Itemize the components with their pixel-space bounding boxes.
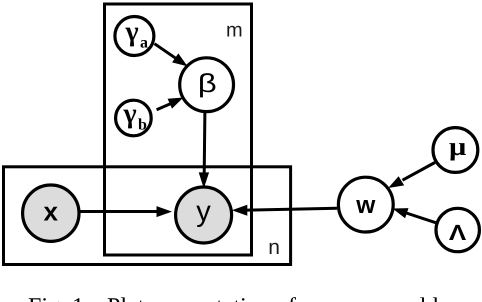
wire w to y bbox=[232, 205, 337, 216]
node mu bbox=[433, 128, 478, 173]
svg-text:b: b bbox=[138, 117, 147, 134]
plate n bbox=[4, 167, 291, 265]
svg-text:n: n bbox=[268, 236, 280, 259]
svg-text:m: m bbox=[226, 19, 243, 41]
node gamma_b bbox=[116, 99, 152, 136]
node y bbox=[176, 187, 232, 243]
node gamma_a bbox=[115, 17, 154, 56]
svg-text:our: our bbox=[322, 294, 354, 302]
wire gamma_b to beta bbox=[157, 98, 184, 110]
wire x to y bbox=[79, 206, 172, 217]
svg-text:γ: γ bbox=[123, 99, 137, 130]
svg-text:a: a bbox=[140, 35, 148, 52]
svg-text:Fig.: Fig. bbox=[28, 294, 66, 302]
svg-text:y: y bbox=[196, 196, 211, 228]
plate m bbox=[105, 4, 252, 255]
svg-text:1.: 1. bbox=[72, 294, 90, 302]
svg-text:β: β bbox=[198, 68, 217, 98]
wire mu to w bbox=[388, 163, 435, 189]
svg-text:γ: γ bbox=[125, 17, 139, 48]
node Lambda bbox=[436, 208, 479, 251]
svg-text:for: for bbox=[288, 294, 316, 302]
wire Lambda to w bbox=[393, 208, 436, 223]
wire beta to y bbox=[199, 112, 209, 189]
node w bbox=[338, 177, 393, 232]
svg-text:w: w bbox=[355, 192, 376, 219]
svg-text:model: model bbox=[387, 294, 439, 302]
wire gamma_a to beta bbox=[155, 44, 188, 67]
svg-text:notation: notation bbox=[192, 294, 271, 302]
node x bbox=[23, 185, 79, 241]
svg-text:Plate: Plate bbox=[107, 294, 155, 302]
svg-text:μ: μ bbox=[449, 132, 467, 161]
svg-text:Λ: Λ bbox=[449, 220, 467, 245]
caption bbox=[28, 294, 439, 302]
svg-text:x: x bbox=[44, 197, 59, 227]
node beta bbox=[180, 58, 234, 112]
